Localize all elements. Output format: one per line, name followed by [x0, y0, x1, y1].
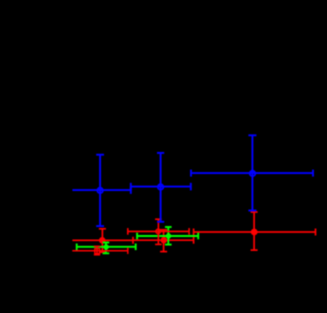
- blue open-circle point B1 marker (open circle): [97, 188, 102, 193]
- red filled point R2 x error bar: [132, 237, 194, 244]
- blue open-circle point B1 x error bar: [72, 186, 130, 194]
- red open-circle point O1 y error bar: [155, 219, 162, 244]
- red filled point R3 marker (filled circle): [251, 229, 258, 236]
- blue open-circle point B2 marker (open circle): [158, 184, 163, 189]
- red filled point R1 x error bar: [72, 237, 133, 244]
- blue open-circle point B3 marker (open circle): [250, 171, 255, 176]
- green diamond point G2 marker (filled diamond): [165, 232, 172, 239]
- red filled point R2 marker (filled circle): [161, 237, 168, 244]
- green diamond point G1 y error bar: [103, 243, 110, 254]
- green diamond point G1 x error bar: [77, 244, 136, 251]
- red filled point R1 y error bar: [99, 229, 106, 252]
- red filled point R3 x error bar: [194, 229, 316, 236]
- red open-circle point O1 marker (open circle): [156, 229, 161, 234]
- red filled point R1 marker (filled circle): [99, 237, 106, 244]
- green diamond point G2 y error bar: [165, 227, 172, 245]
- blue open-circle point B3 x error bar: [191, 170, 313, 177]
- blue open-circle point B2 y error bar: [157, 153, 164, 222]
- red filled point R2 y error bar: [160, 230, 167, 252]
- red open-square point S1 y error bar: [94, 246, 100, 255]
- green diamond point G2 x error bar: [137, 233, 198, 240]
- red filled point R3 y error bar: [251, 212, 258, 250]
- red open-square point S1 marker (open square): [95, 249, 100, 254]
- blue open-circle point B2 x error bar: [131, 183, 191, 191]
- blue open-circle point B3 y error bar: [248, 135, 256, 210]
- red open-square point S1 x error bar: [72, 248, 128, 254]
- red open-circle point O1 x error bar: [128, 228, 189, 235]
- green diamond point G1 marker (filled diamond): [102, 243, 109, 250]
- blue open-circle point B1 y error bar: [96, 155, 104, 226]
